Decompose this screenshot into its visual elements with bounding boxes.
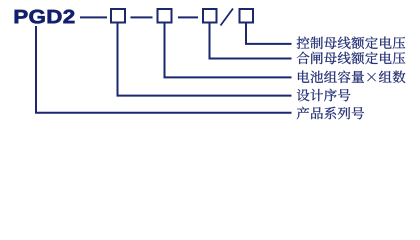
wire from box 3 down to closing-bus label line — [210, 24, 292, 59]
wire from box 4 down to control-bus label line — [246, 24, 292, 44]
dash separator 2 — [131, 16, 153, 18]
digit box 2 (battery capacity x groups) — [158, 9, 172, 23]
wire from box 2 down to battery-capacity label line — [165, 24, 292, 78]
label design serial 设计序号 — [297, 89, 350, 102]
dash separator 1 — [80, 16, 107, 18]
label closing bus rated voltage 合闸母线额定电压 — [297, 52, 405, 65]
model code PGD2 — [15, 10, 75, 24]
label product series 产品系列号 — [297, 107, 364, 120]
wire from PGD2 down to product-series label line — [36, 26, 292, 113]
digit box 1 (design serial number) — [111, 9, 125, 23]
label control bus rated voltage 控制母线额定电压 — [297, 37, 406, 50]
wire from box 1 down to design-serial label line — [118, 24, 292, 96]
digit box 4 (control bus voltage) — [240, 9, 254, 23]
dash separator 3 — [178, 16, 198, 18]
digit box 3 (closing bus voltage) — [203, 9, 217, 23]
slash separator — [221, 9, 234, 26]
label battery capacity 电池组容量×组数 — [298, 71, 405, 84]
